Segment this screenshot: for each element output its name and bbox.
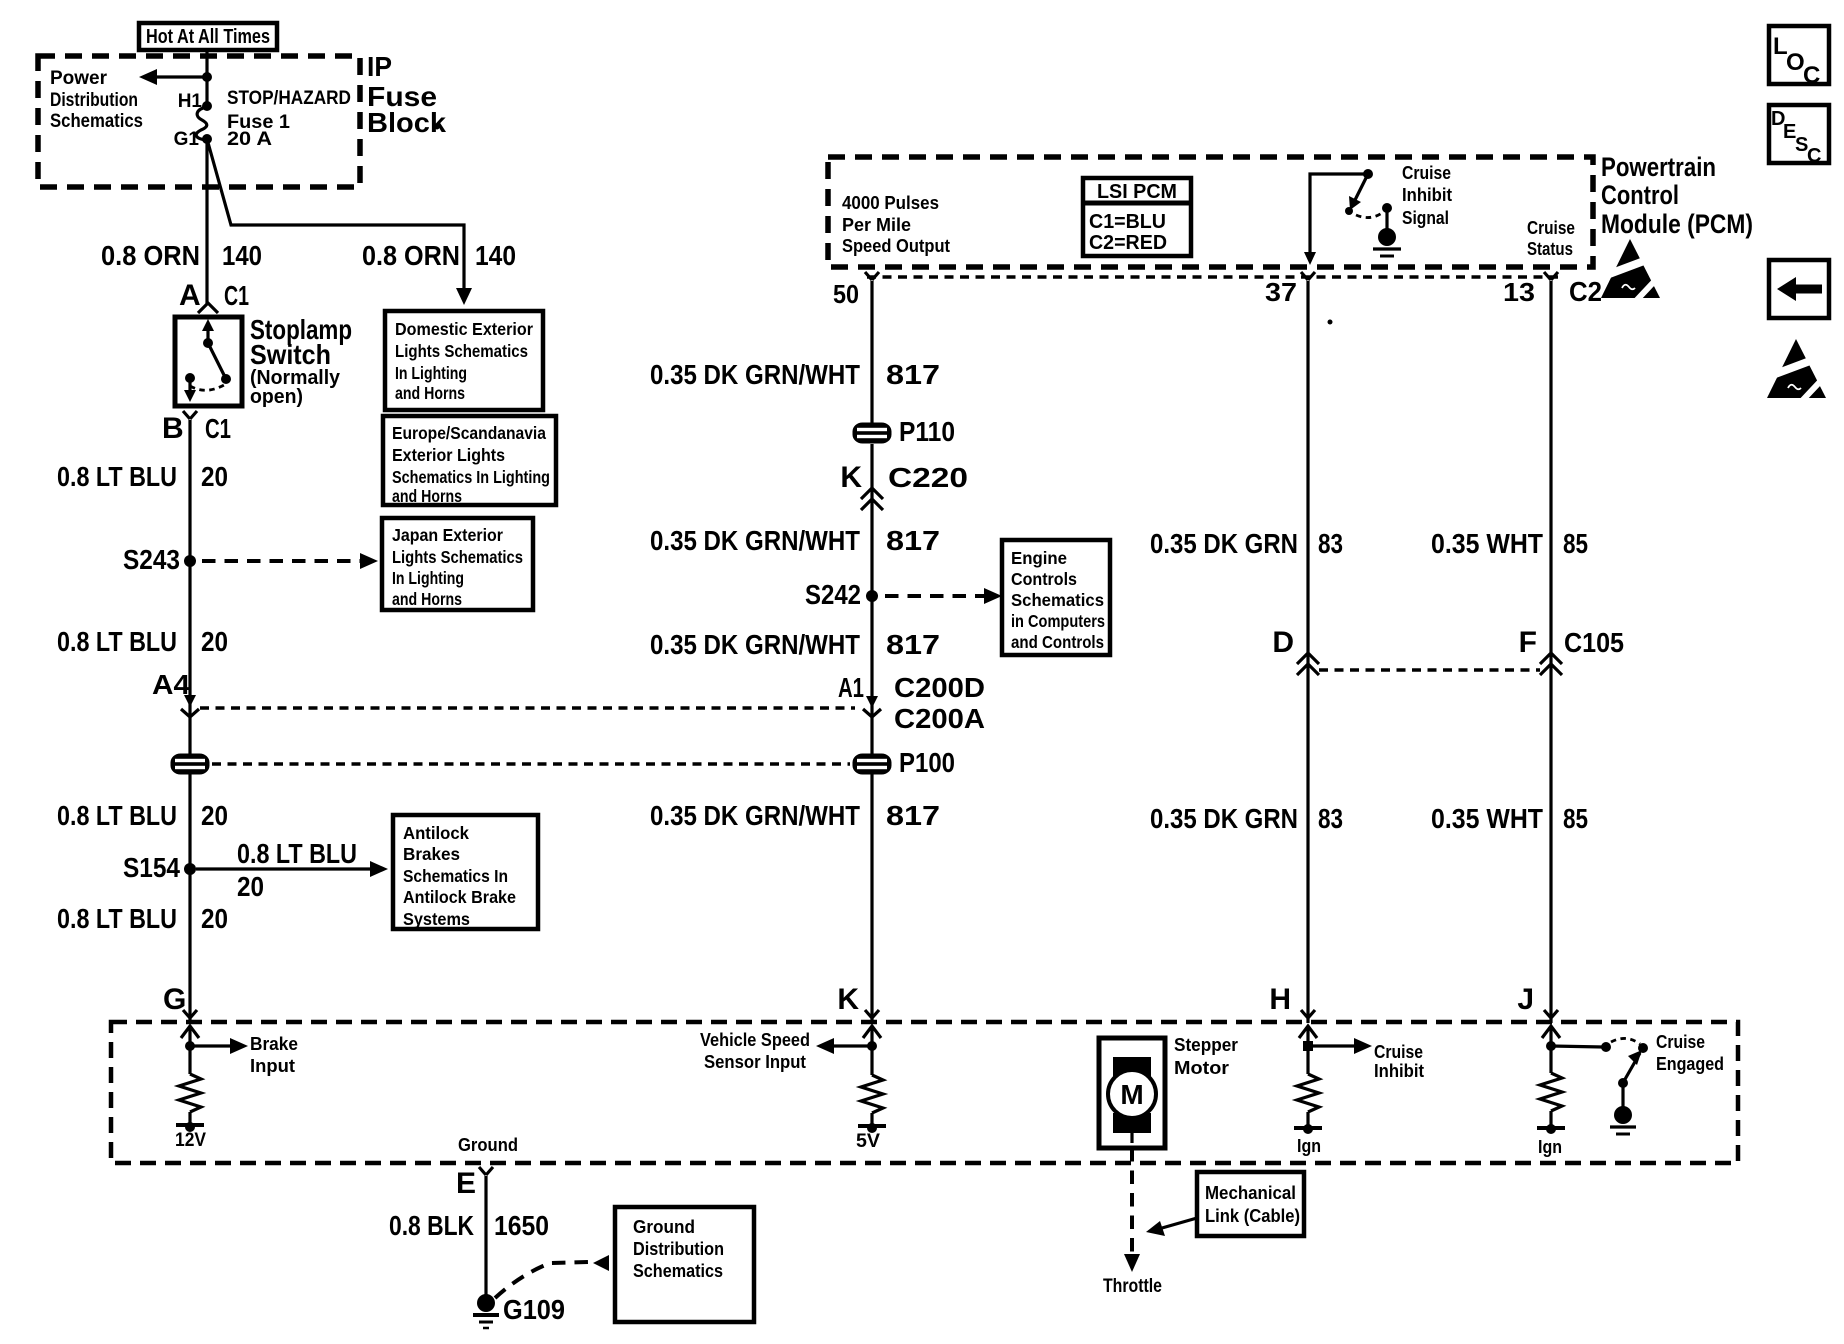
svg-text:817: 817: [886, 800, 940, 831]
svg-text:C: C: [1807, 145, 1821, 167]
svg-text:and Horns: and Horns: [392, 486, 462, 506]
svg-text:Power: Power: [50, 68, 108, 89]
svg-text:S243: S243: [123, 544, 180, 575]
svg-text:C: C: [1803, 62, 1820, 89]
label Power Distribution Schematics: [50, 68, 143, 132]
svg-text:Cruise: Cruise: [1527, 218, 1575, 238]
pin 37: [1265, 272, 1315, 307]
icon DESC box: [1769, 105, 1829, 167]
svg-text:0.8 LT BLU: 0.8 LT BLU: [57, 800, 177, 831]
label 0.35 WHT 85: [1431, 528, 1588, 559]
svg-text:0.35 DK GRN/WHT: 0.35 DK GRN/WHT: [650, 525, 860, 556]
svg-text:C200D: C200D: [894, 672, 985, 703]
label 0.8 ORN 140 (left): [101, 240, 262, 271]
svg-text:C2=RED: C2=RED: [1089, 231, 1167, 254]
svg-text:Block: Block: [367, 107, 446, 138]
svg-text:817: 817: [886, 359, 940, 390]
wire arrow S154 to Antilock Brakes: [196, 838, 388, 902]
wire 0.8 LT BLU 20 left column: [188, 420, 191, 1018]
pin B C1 of stoplamp switch: [162, 411, 231, 445]
splice S243: [123, 544, 196, 575]
svg-text:A: A: [179, 279, 201, 312]
pin G into cluster: [163, 983, 197, 1023]
svg-text:0.35 DK GRN/WHT: 0.35 DK GRN/WHT: [650, 359, 860, 390]
svg-text:S154: S154: [123, 852, 180, 883]
svg-text:C105: C105: [1564, 627, 1624, 658]
svg-text:Cruise: Cruise: [1374, 1042, 1423, 1062]
svg-text:G1: G1: [174, 129, 200, 150]
svg-text:K: K: [837, 983, 859, 1016]
svg-text:and Horns: and Horns: [395, 383, 465, 403]
dashed line C105 interface: [1319, 668, 1540, 672]
reference box Engine Controls Schematics: [1002, 540, 1110, 655]
svg-text:140: 140: [222, 240, 262, 271]
icon LOC box: [1769, 26, 1829, 89]
label 0.8 BLK 1650: [389, 1210, 549, 1241]
svg-text:50: 50: [833, 281, 859, 309]
instrument cluster dashed box: [111, 1022, 1738, 1163]
svg-text:0.8 LT BLU: 0.8 LT BLU: [57, 461, 177, 492]
svg-text:Brakes: Brakes: [403, 844, 460, 864]
svg-text:Engaged: Engaged: [1656, 1054, 1724, 1074]
dashed connector interface line PCM: [867, 275, 1560, 279]
svg-text:Schematics: Schematics: [50, 111, 143, 132]
label Cruise Engaged: [1656, 1032, 1724, 1074]
splice S154: [123, 852, 196, 883]
svg-text:Ign: Ign: [1538, 1137, 1562, 1157]
svg-text:12V: 12V: [175, 1130, 206, 1151]
svg-text:20: 20: [201, 800, 228, 831]
svg-text:Schematics In: Schematics In: [403, 866, 508, 886]
wire below P110: [870, 444, 873, 1018]
resistor speed sensor pull-up: [856, 1075, 886, 1152]
svg-text:J: J: [1517, 983, 1534, 1016]
svg-text:IP: IP: [367, 51, 392, 82]
label Powertrain Control Module (PCM): [1601, 152, 1753, 239]
label Brake Input: [250, 1034, 298, 1076]
svg-text:C220: C220: [888, 462, 968, 493]
label 0.35 DK GRN 83: [1150, 528, 1343, 559]
cruise inhibit circuit: [1299, 1026, 1372, 1074]
svg-text:In Lighting: In Lighting: [392, 568, 464, 588]
svg-text:Distribution: Distribution: [633, 1239, 724, 1259]
svg-text:Speed Output: Speed Output: [842, 236, 950, 256]
svg-text:20: 20: [201, 903, 228, 934]
svg-text:817: 817: [886, 525, 940, 556]
icon back-arrow box: [1769, 260, 1829, 318]
svg-text:H: H: [1269, 983, 1291, 1016]
svg-text:C1: C1: [224, 280, 249, 311]
svg-text:P100: P100: [899, 747, 955, 778]
resistor cruise inhibit: [1294, 1074, 1322, 1156]
label 0.35 DK GRN/WHT 817: [650, 800, 940, 831]
label 0.8 ORN 140 (right branch): [362, 240, 516, 271]
resistor cruise engaged: [1537, 1073, 1565, 1157]
dashed arrow S243 to Japan Exterior Lights: [202, 553, 378, 569]
wire 0.8 ORN 140 down to stoplamp switch: [205, 139, 208, 304]
svg-text:0.35 DK GRN: 0.35 DK GRN: [1150, 803, 1298, 834]
svg-text:in Computers: in Computers: [1011, 611, 1105, 631]
label 0.8 LT BLU 20: [57, 903, 228, 934]
switch Cruise Inhibit Signal inside PCM: [1304, 169, 1401, 265]
dashed arrow S242 to Engine Controls: [885, 588, 1002, 604]
wire arrow to Power Distribution Schematics: [139, 69, 207, 85]
wire 0.35 WHT 85 (pin 13 down): [1549, 281, 1552, 1018]
svg-text:Exterior Lights: Exterior Lights: [392, 445, 505, 465]
svg-text:Ign: Ign: [1297, 1136, 1321, 1156]
svg-text:Antilock Brake: Antilock Brake: [403, 887, 516, 907]
svg-text:13: 13: [1503, 279, 1535, 307]
IP Fuse Block dashed box: [38, 56, 360, 187]
svg-text:Stepper: Stepper: [1174, 1035, 1238, 1055]
svg-text:Brake: Brake: [250, 1034, 298, 1054]
label Cruise Inhibit Signal: [1402, 163, 1452, 228]
svg-text:0.35 DK GRN/WHT: 0.35 DK GRN/WHT: [650, 629, 860, 660]
svg-text:Link (Cable): Link (Cable): [1205, 1206, 1300, 1226]
svg-text:Domestic Exterior: Domestic Exterior: [395, 319, 533, 339]
svg-text:140: 140: [475, 240, 516, 271]
label 0.35 DK GRN/WHT 817: [650, 525, 940, 556]
svg-text:0.8 ORN: 0.8 ORN: [362, 240, 460, 271]
svg-text:S242: S242: [805, 579, 861, 610]
svg-text:Cruise: Cruise: [1402, 163, 1451, 183]
reference box Japan Exterior Lights Schematics: [382, 518, 533, 610]
svg-text:Motor: Motor: [1174, 1058, 1229, 1078]
ESD symbol at C2: [1596, 239, 1665, 303]
svg-text:0.35 DK GRN: 0.35 DK GRN: [1150, 528, 1298, 559]
wire from Hot At All Times into fuse block: [205, 50, 208, 107]
svg-text:0.8 LT BLU: 0.8 LT BLU: [57, 626, 177, 657]
svg-text:1650: 1650: [494, 1210, 549, 1241]
svg-text:Antilock: Antilock: [403, 823, 469, 843]
svg-text:In Lighting: In Lighting: [395, 363, 467, 383]
fuse STOP/HAZARD Fuse 1 20 A: [196, 107, 207, 140]
svg-text:Japan Exterior: Japan Exterior: [392, 525, 503, 545]
scan speck: [435, 125, 440, 130]
label Stepper Motor: [1174, 1035, 1238, 1078]
label 0.35 WHT 85: [1431, 803, 1588, 834]
vehicle speed sensor input circuit: [816, 1026, 881, 1075]
svg-text:Schematics In Lighting: Schematics In Lighting: [392, 467, 550, 487]
svg-text:C1: C1: [205, 413, 231, 444]
svg-text:C200A: C200A: [894, 703, 985, 734]
label 0.35 DK GRN/WHT 817: [650, 629, 940, 660]
reference box Ground Distribution Schematics: [615, 1207, 754, 1322]
pin H into cluster: [1269, 983, 1315, 1023]
label IP Fuse Block: [367, 51, 446, 138]
svg-text:Distribution: Distribution: [50, 90, 138, 111]
svg-text:83: 83: [1318, 803, 1343, 834]
svg-text:E: E: [456, 1167, 476, 1200]
switch stoplamp (normally open): [175, 317, 242, 406]
svg-text:Lights Schematics: Lights Schematics: [392, 547, 523, 567]
svg-text:Status: Status: [1527, 239, 1573, 259]
label Vehicle Speed Sensor Input: [700, 1030, 810, 1072]
svg-text:Controls: Controls: [1011, 569, 1077, 589]
pin A C1 of stoplamp switch: [179, 279, 249, 313]
svg-text:C2: C2: [1569, 276, 1602, 307]
svg-text:20: 20: [201, 626, 228, 657]
splice S242: [805, 579, 878, 610]
svg-text:4000 Pulses: 4000 Pulses: [842, 193, 939, 213]
mechanical link dashed wire to throttle: [1103, 1148, 1162, 1297]
grommet P100: [853, 747, 956, 778]
svg-text:Ground: Ground: [458, 1135, 518, 1155]
svg-text:83: 83: [1318, 528, 1343, 559]
dashed line P100 interface: [212, 762, 850, 766]
svg-text:0.8 LT BLU: 0.8 LT BLU: [237, 838, 357, 869]
svg-text:0.35 WHT: 0.35 WHT: [1431, 528, 1543, 559]
wire 0.35 DK GRN 83 (pin 37 down): [1306, 281, 1309, 1018]
dashed arrow G109 to Ground Distribution: [495, 1255, 609, 1298]
svg-text:STOP/HAZARD: STOP/HAZARD: [227, 88, 351, 109]
svg-text:Module (PCM): Module (PCM): [1601, 209, 1753, 239]
brake input circuit: [181, 1026, 248, 1074]
grommet P100 (left): [171, 754, 210, 775]
label Stoplamp Switch: [250, 314, 352, 408]
svg-text:D: D: [1272, 626, 1294, 659]
wire 0.35 DK GRN/WHT 817 (pin 50 to P110): [870, 281, 873, 423]
svg-text:O: O: [1786, 49, 1805, 76]
label 0.35 DK GRN/WHT 817: [650, 359, 940, 390]
grommet P110: [853, 416, 956, 447]
ground G109: [473, 1294, 565, 1328]
svg-text:Per Mile: Per Mile: [842, 215, 911, 235]
label 4000 Pulses Per Mile Speed Output: [842, 193, 950, 256]
svg-text:0.8 ORN: 0.8 ORN: [101, 240, 200, 271]
pin K into cluster: [837, 983, 879, 1023]
pin H1: [178, 91, 212, 112]
label Cruise Inhibit: [1374, 1042, 1424, 1081]
pin J into cluster: [1517, 983, 1558, 1023]
svg-text:Sensor Input: Sensor Input: [704, 1052, 806, 1072]
pin G1: [174, 129, 212, 150]
label fuse value: [227, 88, 351, 150]
svg-text:Throttle: Throttle: [1103, 1276, 1162, 1297]
icon ESD symbol right margin: [1762, 339, 1831, 403]
svg-text:P110: P110: [899, 416, 955, 447]
svg-text:B: B: [162, 412, 184, 445]
svg-text:817: 817: [886, 629, 940, 660]
svg-text:Ground: Ground: [633, 1217, 695, 1237]
label box Mechanical Link (Cable): [1146, 1172, 1304, 1236]
label 0.35 DK GRN 83: [1150, 803, 1343, 834]
svg-text:20: 20: [201, 461, 228, 492]
dashed line C200 interface: [200, 706, 855, 710]
svg-text:open): open): [250, 385, 303, 408]
svg-text:20 A: 20 A: [227, 129, 272, 150]
wire branch 0.8 ORN 140 to Domestic Exterior Lights: [207, 139, 472, 305]
connector A1 C200D / C200A: [838, 672, 985, 734]
svg-text:Schematics: Schematics: [1011, 590, 1104, 610]
svg-text:M: M: [1120, 1079, 1143, 1110]
svg-text:Hot At All Times: Hot At All Times: [146, 25, 270, 48]
svg-text:G109: G109: [503, 1294, 565, 1325]
pin 50: [833, 272, 879, 309]
svg-text:Inhibit: Inhibit: [1374, 1061, 1424, 1081]
label 0.8 LT BLU 20: [57, 461, 228, 492]
svg-text:Schematics: Schematics: [633, 1261, 723, 1281]
svg-text:F: F: [1519, 626, 1537, 659]
svg-text:and Horns: and Horns: [392, 589, 462, 609]
svg-text:0.35 WHT: 0.35 WHT: [1431, 803, 1543, 834]
connector A4 (C200): [152, 669, 199, 717]
svg-text:Vehicle Speed: Vehicle Speed: [700, 1030, 810, 1050]
svg-text:Engine: Engine: [1011, 548, 1067, 568]
svg-text:and Controls: and Controls: [1011, 632, 1104, 652]
svg-text:85: 85: [1563, 803, 1588, 834]
svg-text:Control: Control: [1601, 180, 1679, 210]
label 0.8 LT BLU 20: [57, 800, 228, 831]
svg-text:A1: A1: [838, 672, 864, 703]
svg-text:K: K: [840, 461, 862, 494]
connector K C220: [840, 461, 968, 510]
svg-text:Signal: Signal: [1402, 208, 1449, 228]
label box LSI PCM C1=BLU C2=RED: [1083, 178, 1191, 256]
connector D (C105): [1272, 626, 1319, 675]
svg-text:20: 20: [237, 871, 264, 902]
svg-text:Powertrain: Powertrain: [1601, 152, 1716, 182]
svg-text:37: 37: [1265, 279, 1297, 307]
pin 13 C2: [1503, 272, 1602, 307]
reference box Europe/Scandanavia Exterior Lights: [383, 416, 556, 506]
node junction above fuse H1: [202, 72, 212, 82]
PCM dashed box: [828, 157, 1593, 267]
reference box Domestic Exterior Lights Schematics: [385, 311, 543, 410]
label Hot At All Times: [139, 23, 277, 50]
svg-text:85: 85: [1563, 528, 1588, 559]
svg-text:Inhibit: Inhibit: [1402, 185, 1452, 205]
label 0.8 LT BLU 20: [57, 626, 228, 657]
svg-text:Lights Schematics: Lights Schematics: [395, 341, 528, 361]
motor stepper M: [1099, 1038, 1165, 1148]
label Cruise Status: [1527, 218, 1575, 259]
svg-text:Cruise: Cruise: [1656, 1032, 1705, 1052]
reference box Antilock Brakes Schematics: [393, 815, 538, 929]
svg-text:C1=BLU: C1=BLU: [1089, 210, 1166, 233]
resistor brake input pull-up: [175, 1074, 206, 1151]
svg-text:Systems: Systems: [403, 909, 470, 929]
svg-text:5V: 5V: [856, 1131, 880, 1152]
svg-text:Europe/Scandanavia: Europe/Scandanavia: [392, 423, 546, 443]
svg-text:LSI PCM: LSI PCM: [1097, 180, 1177, 203]
svg-text:0.8 BLK: 0.8 BLK: [389, 1210, 474, 1241]
svg-text:Input: Input: [250, 1056, 295, 1076]
cruise engaged switch circuit: [1542, 1026, 1648, 1134]
connector F C105: [1519, 626, 1624, 675]
pin E ground: [456, 1167, 493, 1295]
svg-text:0.8 LT BLU: 0.8 LT BLU: [57, 903, 177, 934]
svg-text:0.35 DK GRN/WHT: 0.35 DK GRN/WHT: [650, 800, 860, 831]
scan speck: [1328, 320, 1333, 325]
svg-text:Mechanical: Mechanical: [1205, 1183, 1296, 1203]
